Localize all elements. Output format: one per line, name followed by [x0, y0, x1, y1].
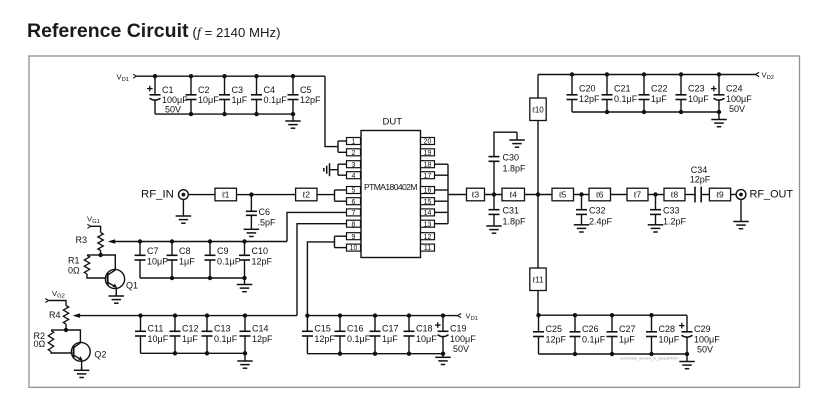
capacitor C25 12pF	[533, 315, 567, 354]
capacitor C19 100μF	[435, 313, 476, 356]
svg-text:ℓ1: ℓ1	[221, 190, 230, 200]
capacitor C2 10μF	[186, 74, 220, 116]
wire L2 to pins 5-6	[317, 194, 335, 196]
svg-text:1μF: 1μF	[382, 334, 398, 344]
svg-text:ℓ6: ℓ6	[595, 190, 604, 200]
wire node to R2	[51, 329, 66, 331]
svg-text:RF_OUT: RF_OUT	[750, 189, 794, 201]
wire pin 7 to gate bias bus	[287, 212, 347, 241]
transistor Q2	[71, 342, 106, 361]
wire Q1 emitter to ground	[115, 288, 117, 297]
svg-text:2: 2	[352, 150, 356, 157]
svg-text:C5: C5	[300, 85, 312, 95]
node C30/C31	[492, 192, 496, 196]
svg-text:4: 4	[352, 173, 356, 180]
wire C20-C24 bottom bus	[572, 111, 719, 113]
svg-text:C29: C29	[694, 324, 711, 334]
svg-text:C21: C21	[614, 84, 631, 94]
pin 18	[421, 161, 435, 168]
pin 3	[347, 161, 361, 168]
capacitor C10 12pF	[239, 239, 273, 278]
svg-text:1μF: 1μF	[179, 257, 195, 267]
svg-text:8: 8	[352, 221, 356, 228]
svg-text:C13: C13	[214, 324, 231, 334]
VD1 branch chevron	[133, 74, 136, 78]
svg-text:6: 6	[352, 199, 356, 206]
junction C14 bottom	[243, 351, 247, 355]
svg-text:C14: C14	[252, 324, 269, 334]
wire C11-C14 top bus	[80, 315, 298, 317]
svg-text:C20: C20	[579, 84, 596, 94]
node C6 junction	[249, 192, 253, 196]
svg-text:50V: 50V	[165, 105, 181, 115]
resistor R1 0 ohm	[84, 255, 89, 274]
capacitor C1 100μF	[147, 74, 188, 115]
capacitor C21 0.1μF	[602, 72, 638, 114]
ground below C14	[237, 353, 253, 368]
arrowhead to R3	[108, 239, 116, 244]
wire bracket pins 13-18	[435, 164, 449, 224]
wire C6 node to L2	[251, 194, 295, 196]
RF_OUT connector	[736, 190, 746, 200]
svg-text:C11: C11	[148, 324, 164, 334]
svg-text:10μF: 10μF	[148, 334, 169, 344]
svg-text:20: 20	[424, 139, 432, 146]
capacitor C26 0.1μF	[570, 313, 606, 356]
ground below Q1	[109, 293, 125, 303]
svg-text:12pF: 12pF	[300, 95, 321, 105]
node C32	[579, 192, 583, 196]
ground below Q2	[74, 367, 90, 378]
VG1 probe chevron	[87, 224, 90, 228]
wire L7 to C33 node	[648, 194, 664, 196]
svg-text:ℓ10: ℓ10	[531, 105, 544, 114]
svg-text:1.8pF: 1.8pF	[503, 217, 527, 227]
capacitor C16 0.1μF	[335, 313, 371, 356]
svg-text:14: 14	[424, 210, 432, 217]
capacitor C30 1.8pF	[489, 132, 527, 194]
wire C11-C14 bottom bus	[141, 352, 246, 354]
junction C24 bottom	[717, 110, 721, 114]
svg-text:ℓ7: ℓ7	[633, 190, 642, 200]
svg-text:13: 13	[424, 221, 432, 228]
ground below C24	[711, 112, 727, 127]
resistor R4	[63, 306, 68, 325]
transmission line L5	[552, 188, 574, 201]
wire L9 to RF_OUT	[731, 194, 737, 196]
capacitor C15 12pF	[302, 316, 336, 354]
capacitor C12 1μF	[170, 313, 199, 355]
RF_IN connector	[179, 190, 189, 200]
svg-text:ℓ5: ℓ5	[558, 190, 567, 200]
capacitor C3 1μF	[219, 74, 248, 116]
svg-text:ℓ3: ℓ3	[471, 190, 480, 200]
svg-text:R3: R3	[76, 235, 88, 245]
svg-text:DUT: DUT	[383, 117, 403, 128]
wire C7-C10 top bus	[115, 241, 288, 243]
svg-text:3: 3	[352, 162, 356, 169]
capacitor C22 1μF	[639, 72, 668, 114]
svg-text:C32: C32	[589, 206, 606, 216]
ground below C19	[435, 354, 451, 365]
svg-text:C16: C16	[347, 324, 364, 334]
svg-text:19: 19	[424, 150, 432, 157]
ground above C30	[509, 132, 525, 147]
wire R4 to bias node 2	[65, 324, 67, 330]
pin 20	[421, 138, 435, 145]
svg-text:C15: C15	[314, 324, 331, 334]
svg-text:18: 18	[424, 162, 432, 169]
svg-text:1μF: 1μF	[651, 94, 667, 104]
svg-text:C17: C17	[382, 324, 399, 334]
node C33	[653, 192, 657, 196]
wire drain bus top	[537, 75, 539, 99]
wire L4 to bus node	[525, 194, 553, 196]
wire drain bus middle	[537, 121, 539, 269]
pin 1	[347, 138, 361, 145]
svg-text:11: 11	[424, 245, 431, 252]
svg-text:C4: C4	[264, 85, 276, 95]
svg-text:C27: C27	[619, 324, 636, 334]
svg-text:10μF: 10μF	[147, 257, 168, 267]
svg-text:17: 17	[424, 173, 432, 180]
capacitor C7 10μF	[135, 239, 169, 278]
pin 14	[421, 209, 435, 216]
svg-text:C19: C19	[450, 324, 467, 334]
svg-text:12pF: 12pF	[690, 175, 711, 185]
svg-text:2.4pF: 2.4pF	[589, 217, 613, 227]
transmission line L10	[530, 98, 546, 121]
resistor R2 0 ohm	[48, 331, 53, 352]
svg-text:ℓ2: ℓ2	[302, 190, 311, 200]
svg-text:C10: C10	[252, 246, 269, 256]
capacitor C4 0.1μF	[251, 74, 287, 116]
wire L5 to C32 node	[574, 194, 590, 196]
ground below C32	[574, 224, 590, 232]
wire pins 9-10 to VD1 bottom bus	[307, 242, 334, 316]
wire bracket pins 9-10	[335, 235, 347, 237]
svg-text:10μF: 10μF	[416, 334, 437, 344]
transmission line L2	[296, 188, 317, 201]
transmission line L9	[709, 188, 730, 201]
VD2 chevron	[756, 72, 760, 76]
svg-text:1μF: 1μF	[182, 334, 198, 344]
svg-text:100μF: 100μF	[450, 334, 476, 344]
svg-text:ℓ4: ℓ4	[509, 190, 518, 200]
wire R3 to bias node	[100, 251, 102, 256]
capacitor C28 10μF	[646, 313, 680, 356]
svg-text:50V: 50V	[453, 344, 469, 354]
ground below C6	[244, 229, 260, 237]
wire C34 to L9	[701, 194, 709, 196]
transmission line L1	[215, 188, 237, 201]
DUT body PTMA180402M	[361, 131, 421, 258]
ground at pins 3-4	[324, 163, 338, 176]
transmission line L7	[627, 188, 648, 201]
pin 5	[347, 187, 361, 194]
svg-text:12pF: 12pF	[252, 257, 273, 267]
ground below C5	[285, 114, 301, 128]
node pins 9-10 feed	[305, 313, 309, 317]
wire C15-C19 top bus	[307, 315, 457, 317]
capacitor C17 1μF	[370, 313, 399, 356]
svg-text:50V: 50V	[729, 104, 745, 114]
svg-text:1.8pF: 1.8pF	[503, 164, 527, 174]
svg-text:C2: C2	[198, 85, 210, 95]
capacitor C11 10μF	[135, 313, 169, 353]
svg-text:C6: C6	[259, 207, 271, 217]
svg-text:0.1μF: 0.1μF	[217, 257, 241, 267]
wire RF_IN to L1	[188, 194, 215, 196]
svg-text:C30: C30	[503, 153, 520, 163]
pin 16	[421, 187, 435, 194]
pin 12	[421, 233, 435, 240]
svg-text:0.1μF: 0.1μF	[264, 95, 288, 105]
svg-text:10μF: 10μF	[198, 95, 219, 105]
svg-text:16: 16	[424, 188, 432, 195]
node R4/R2/Q2	[64, 328, 68, 332]
svg-text:C31: C31	[503, 206, 520, 216]
svg-text:1μF: 1μF	[619, 335, 635, 345]
svg-text:0.1μF: 0.1μF	[214, 334, 238, 344]
wire drain bus bottom	[537, 291, 539, 316]
svg-text:15: 15	[424, 199, 432, 206]
wire C15-C19 bottom bus	[307, 353, 443, 355]
pin 4	[347, 172, 361, 179]
svg-text:12pF: 12pF	[314, 334, 335, 344]
svg-text:C12: C12	[182, 324, 199, 334]
svg-text:RF_IN: RF_IN	[141, 189, 174, 201]
capacitor C34 12pF (series)	[690, 165, 711, 202]
svg-text:1μF: 1μF	[232, 95, 248, 105]
transmission line L11	[530, 268, 546, 291]
pin 2	[347, 149, 361, 156]
pin 15	[421, 198, 435, 205]
ground below RF_OUT	[733, 199, 749, 228]
wire VD1 bus drop to pins 1-2	[325, 76, 338, 146]
svg-text:0.1μF: 0.1μF	[582, 335, 606, 345]
wire bracket pins 1-2	[338, 140, 347, 142]
svg-text:100μF: 100μF	[162, 95, 188, 105]
wire DUT output to L3	[448, 194, 467, 196]
svg-text:C26: C26	[582, 324, 599, 334]
svg-text:50V: 50V	[697, 344, 713, 354]
junction C10 bottom	[242, 276, 246, 280]
resistor R3	[98, 233, 103, 251]
svg-text:10: 10	[350, 245, 358, 252]
capacitor C20 12pF	[567, 72, 601, 112]
wire VG1 to R3	[91, 226, 101, 232]
wire C25-C29 bottom bus	[539, 353, 688, 355]
svg-text:0.1μF: 0.1μF	[347, 334, 371, 344]
svg-text:9: 9	[352, 234, 356, 241]
capacitor C18 10μF	[404, 313, 438, 356]
wire C1-C5 bottom bus	[155, 113, 293, 115]
transmission line L3	[467, 188, 485, 201]
svg-text:C23: C23	[688, 84, 705, 94]
wire VD2 top bus	[538, 74, 756, 76]
wire node to R1	[87, 254, 101, 256]
wire R1 to Q1 base	[87, 274, 107, 278]
svg-text:1.2pF: 1.2pF	[663, 217, 687, 227]
capacitor C27 1μF	[607, 313, 636, 356]
svg-text:C18: C18	[416, 324, 433, 334]
wire VD1 top bus	[136, 75, 325, 77]
pin 9	[347, 233, 361, 240]
ground below RF_IN	[176, 200, 192, 224]
svg-text:0Ω: 0Ω	[34, 339, 46, 349]
svg-text:C34: C34	[691, 165, 708, 175]
capacitor C5 12pF	[288, 74, 322, 114]
wire L3 to node	[485, 194, 503, 196]
schematic border frame	[29, 56, 800, 387]
wire pin 8 to gate bias bus 2	[297, 224, 347, 316]
svg-text:C7: C7	[147, 246, 159, 256]
ground below C31	[486, 225, 502, 233]
svg-text:ℓ9: ℓ9	[715, 190, 724, 200]
svg-text:C33: C33	[663, 206, 680, 216]
svg-text:Q1: Q1	[126, 281, 138, 291]
svg-text:R4: R4	[49, 310, 61, 320]
pin 11	[421, 244, 435, 251]
transmission line L8	[664, 188, 685, 201]
pin 8	[347, 220, 361, 227]
capacitor C9 0.1μF	[205, 239, 241, 280]
svg-text:C25: C25	[546, 324, 563, 334]
pin 17	[421, 172, 435, 179]
svg-text:.5pF: .5pF	[258, 218, 277, 228]
svg-text:C3: C3	[232, 85, 244, 95]
svg-text:12pF: 12pF	[252, 334, 273, 344]
capacitor C14 12pF	[240, 313, 274, 353]
arrowhead to R4	[73, 313, 81, 318]
svg-text:10μF: 10μF	[688, 94, 709, 104]
junction C5 bottom	[291, 112, 295, 116]
svg-text:ℓ11: ℓ11	[532, 275, 544, 284]
pin 6	[347, 198, 361, 205]
VD1 bottom chevron	[458, 314, 462, 318]
wire Q2 emitter to ground	[81, 360, 83, 370]
svg-text:C22: C22	[651, 84, 668, 94]
svg-text:Q2: Q2	[94, 350, 106, 360]
wire node to Q2 collector	[66, 330, 80, 343]
svg-text:12pF: 12pF	[546, 335, 567, 345]
transmission line L4	[502, 188, 525, 201]
svg-text:C1: C1	[162, 85, 174, 95]
capacitor C6 .5pF	[246, 195, 276, 229]
svg-text:100μF: 100μF	[726, 94, 752, 104]
node drain bus to C25 bank	[536, 313, 540, 317]
node R3/R1/Q1	[98, 253, 102, 257]
wire L1 to C6 node	[237, 194, 252, 196]
svg-text:12: 12	[424, 234, 432, 241]
svg-text:10μF: 10μF	[659, 335, 680, 345]
svg-text:100μF: 100μF	[694, 335, 720, 345]
svg-text:PTMA180402M: PTMA180402M	[364, 182, 418, 192]
VG2 probe chevron	[45, 299, 48, 303]
pin 13	[421, 220, 435, 227]
ground below C33	[648, 224, 664, 232]
capacitor C23 10μF	[676, 72, 710, 114]
wire bracket pins 5-6	[335, 189, 347, 191]
svg-text:C28: C28	[659, 324, 676, 334]
wire R2 to Q2 base	[51, 352, 72, 354]
capacitor C33 1.2pF	[650, 195, 687, 227]
ground below C29	[679, 354, 695, 369]
ground below C10	[237, 278, 253, 292]
node drain bus	[536, 192, 540, 196]
svg-text:1: 1	[352, 139, 356, 146]
svg-text:C8: C8	[179, 246, 191, 256]
wire bracket pins 3-4	[338, 163, 347, 165]
wire C25-C29 top bus	[539, 314, 688, 316]
svg-text:7: 7	[352, 210, 356, 217]
capacitor C32 2.4pF	[576, 195, 613, 227]
capacitor C13 0.1μF	[202, 313, 238, 355]
svg-text:0.1μF: 0.1μF	[614, 94, 638, 104]
svg-text:5: 5	[352, 188, 356, 195]
svg-text:0Ω: 0Ω	[68, 266, 80, 276]
wire L8 to C34	[685, 194, 695, 196]
wire VG2 to R4	[49, 301, 67, 306]
svg-text:12pF: 12pF	[579, 94, 600, 104]
wire C7-C10 bottom bus	[140, 277, 245, 279]
pin 7	[347, 209, 361, 216]
capacitor C8 1μF	[167, 239, 196, 280]
svg-text:R1: R1	[68, 255, 80, 265]
pin 19	[421, 149, 435, 156]
transistor Q1	[105, 269, 138, 290]
svg-text:ℓ8: ℓ8	[670, 190, 679, 200]
svg-text:po-frc0029a_rev-swrs_02_ptma18: po-frc0029a_rev-swrs_02_ptma180402m	[620, 357, 679, 361]
pin 10	[347, 244, 361, 251]
wire node to Q1 collector	[101, 255, 116, 270]
capacitor C24 100μF	[711, 72, 752, 114]
transmission line L6	[589, 188, 611, 201]
capacitor C29 100μF	[679, 315, 720, 356]
svg-text:C24: C24	[726, 84, 743, 94]
capacitor C31 1.8pF	[489, 195, 527, 227]
svg-text:C9: C9	[217, 246, 229, 256]
wire L6 to L7	[611, 194, 628, 196]
